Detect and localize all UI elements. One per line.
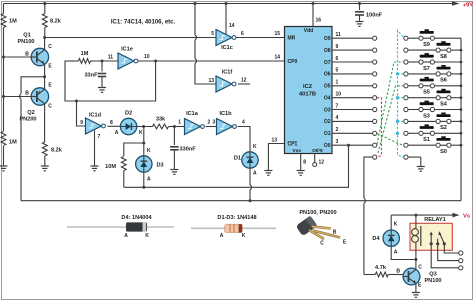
svg-text:Vdd: Vdd	[304, 28, 313, 34]
pin 8 Vss stub	[293, 148, 307, 171]
svg-text:3: 3	[213, 120, 216, 126]
svg-text:PN100: PN100	[17, 39, 34, 45]
relay RELAY1 box	[410, 217, 452, 250]
svg-text:9: 9	[80, 120, 83, 126]
wire 33k to IC1a	[169, 120, 185, 129]
ground 100nF	[356, 22, 364, 27]
svg-text:D4: D4	[372, 236, 380, 242]
switch S0 pushbutton	[404, 136, 463, 155]
svg-text:13: 13	[271, 138, 277, 144]
pin 14 CP0	[274, 55, 297, 65]
wire 10M to bus	[123, 171, 125, 188]
svg-text:O0: O0	[324, 143, 331, 149]
inverter IC1a	[185, 111, 205, 135]
svg-text:S1: S1	[423, 137, 430, 143]
pin 5 label	[211, 31, 214, 37]
svg-text:2: 2	[336, 127, 339, 133]
svg-text:A: A	[220, 233, 224, 239]
svg-text:11: 11	[336, 32, 342, 38]
svg-text:4: 4	[336, 115, 339, 121]
diode D2	[115, 111, 143, 137]
svg-text:1M: 1M	[9, 19, 17, 25]
wire IC1b output to D1	[238, 120, 258, 153]
diode D1	[234, 152, 258, 177]
svg-text:A: A	[253, 171, 257, 177]
svg-text:4: 4	[242, 120, 245, 126]
terminal circle O2	[373, 119, 377, 123]
resistor R 8.2k upper	[42, 2, 61, 38]
terminal circle O1	[373, 131, 377, 135]
relay contact arm 2	[436, 239, 439, 246]
svg-text:IC2: IC2	[303, 84, 312, 90]
svg-text:O9: O9	[324, 36, 331, 42]
diode D3	[136, 156, 164, 183]
wire output O9 pin 11	[324, 32, 373, 42]
transistor Q2 PN200	[19, 83, 52, 123]
pin 9 label	[80, 120, 83, 126]
pin 6 label	[241, 31, 244, 37]
pictorial PN100 PN200 package	[296, 210, 347, 247]
wire D3 anode to bus	[142, 172, 145, 189]
svg-text:10: 10	[336, 92, 342, 98]
svg-text:S8: S8	[440, 54, 447, 60]
svg-text:O7: O7	[324, 60, 331, 66]
capacitor C 100nF	[355, 2, 383, 22]
svg-text:S5: S5	[423, 90, 430, 96]
svg-text:IC1f: IC1f	[222, 70, 233, 76]
wire Q3 collector	[415, 260, 417, 270]
svg-text:Q1: Q1	[23, 33, 30, 39]
svg-text:IC1a: IC1a	[186, 111, 199, 117]
terminal circle O4	[373, 96, 377, 100]
switch S4 pushbutton	[404, 89, 463, 108]
svg-text:9: 9	[336, 44, 339, 50]
svg-text:D1: D1	[234, 156, 241, 162]
pictorial D1-D3 1N4148	[191, 215, 276, 239]
ground 330nF	[170, 170, 178, 175]
ground 33nF	[98, 88, 106, 93]
wire output O3 pin 7	[324, 103, 373, 113]
resistor R 8.2k lower	[42, 142, 62, 166]
svg-text:K: K	[139, 130, 143, 136]
node Vs label	[463, 214, 470, 220]
svg-text:PN100, PN200: PN100, PN200	[299, 210, 336, 216]
svg-text:B: B	[333, 230, 337, 236]
svg-text:S2: S2	[440, 125, 447, 131]
wire O0 branch to timeout bus	[124, 145, 349, 187]
svg-text:O3: O3	[324, 107, 331, 113]
wire Q1 emitter to Q2 emitter	[43, 64, 46, 89]
wire relay terminal 1	[444, 244, 463, 255]
wire touch bus	[21, 200, 461, 202]
svg-text:K: K	[147, 148, 151, 154]
resistor R 4.7k	[364, 265, 404, 277]
svg-text:4017B: 4017B	[299, 92, 316, 98]
svg-text:16: 16	[316, 18, 322, 24]
wire relay terminal 2	[438, 244, 463, 263]
svg-text:S4: S4	[440, 102, 448, 108]
wire Q1 base	[2, 56, 31, 59]
wire output O2 pin 4	[324, 115, 373, 125]
jumper red O4 to relay-drive	[377, 98, 382, 157]
svg-text:11: 11	[108, 55, 114, 61]
pin 13 CP1 grounded	[268, 138, 297, 171]
svg-text:C: C	[48, 103, 52, 109]
svg-text:1M: 1M	[81, 51, 89, 57]
svg-text:RELAY1: RELAY1	[424, 217, 446, 223]
svg-text:C: C	[418, 265, 422, 271]
pin 12 O5-9 stub	[312, 148, 324, 167]
jumper green drive to S5	[378, 86, 403, 153]
relay coil	[412, 215, 421, 259]
jumper green O0 to S7	[377, 62, 403, 144]
svg-text:D2: D2	[125, 111, 132, 117]
wire IC1a out to IC1b	[206, 120, 217, 127]
svg-text:CP0: CP0	[288, 59, 298, 65]
wire output O1 pin 2	[324, 127, 373, 137]
wire Q2 collector	[44, 104, 46, 142]
capacitor C 330nF	[170, 127, 196, 170]
svg-text:B: B	[396, 269, 400, 275]
svg-text:8.2k: 8.2k	[50, 19, 62, 25]
inverter IC1f	[216, 70, 236, 93]
wire Q1 collector	[43, 36, 46, 50]
svg-text:5: 5	[336, 68, 339, 74]
jumper cyan ground chain	[396, 31, 403, 158]
wire bases column	[2, 57, 5, 98]
svg-text:B: B	[25, 91, 29, 97]
inverter IC1e	[118, 47, 138, 70]
svg-text:A: A	[124, 233, 128, 239]
wire node to D3 cathode	[144, 127, 151, 157]
svg-text:7: 7	[336, 103, 339, 109]
svg-text:1: 1	[336, 80, 339, 86]
svg-text:13: 13	[208, 78, 214, 84]
switch S1 pushbutton	[404, 124, 463, 143]
svg-text:Q2: Q2	[27, 110, 34, 116]
svg-text:8: 8	[303, 160, 306, 166]
svg-text:100nF: 100nF	[366, 13, 383, 19]
svg-text:33nF: 33nF	[84, 73, 98, 79]
row ground terminal	[404, 155, 421, 167]
wire Q3 emitter	[415, 283, 417, 292]
resistor R 33k	[153, 117, 169, 129]
terminal circle O0	[373, 143, 377, 147]
wire Q1 collector to IC1c input	[45, 37, 216, 39]
svg-text:S9: S9	[423, 42, 430, 48]
svg-text:12: 12	[319, 160, 325, 166]
ground lower 8.2k	[41, 166, 49, 171]
svg-text:S0: S0	[440, 149, 447, 155]
ground bottom-left 1M	[0, 166, 8, 171]
svg-text:O5-9: O5-9	[312, 148, 323, 154]
pin 12 IC1f output stub	[238, 78, 250, 85]
svg-text:D3: D3	[157, 163, 164, 169]
switch S8 pushbutton	[404, 41, 463, 60]
wire 10M branch	[124, 142, 146, 157]
terminal circle O3	[373, 107, 377, 111]
switch S6 pushbutton	[404, 65, 463, 84]
svg-text:O6: O6	[324, 72, 331, 78]
resistor R 1M top-left	[1, 4, 17, 57]
svg-text:CP1: CP1	[288, 142, 298, 148]
relay contact arm 1	[430, 231, 433, 245]
inverter IC1c	[216, 30, 236, 52]
wire output O4 pin 10	[324, 92, 373, 102]
svg-text:K: K	[394, 222, 398, 228]
inverter IC1d	[86, 113, 106, 135]
wire output O8 pin 9	[324, 44, 373, 54]
terminal circle O9	[373, 36, 377, 40]
pin 8 label	[110, 120, 113, 126]
svg-text:IC1b: IC1b	[219, 111, 232, 117]
terminal circle O7	[373, 60, 377, 64]
wire IC1f input tie to rail	[194, 2, 217, 84]
switch S2 pushbutton	[404, 113, 463, 132]
svg-text:Vss: Vss	[293, 148, 302, 154]
svg-text:1: 1	[178, 120, 181, 126]
svg-text:15: 15	[274, 31, 280, 37]
wire IC1d output	[108, 125, 121, 127]
ground CP1	[264, 171, 272, 176]
transistor Q3 PN100	[396, 265, 441, 289]
wire oscillator feedback loop	[65, 61, 156, 103]
diode D4	[372, 215, 417, 261]
svg-text:IC1c: IC1c	[221, 45, 233, 51]
terminal circle O6	[373, 72, 377, 76]
svg-text:K: K	[242, 233, 246, 239]
wire CP0 net to IC2	[156, 60, 285, 62]
resistor R 1M oscillator	[65, 51, 94, 63]
svg-text:Q3: Q3	[429, 272, 436, 278]
resistor R 10M	[105, 157, 126, 171]
jumper green O1 to S0	[377, 133, 403, 145]
resistor R 1M bottom-left	[1, 97, 17, 167]
svg-text:B: B	[25, 52, 29, 58]
svg-text:C: C	[320, 241, 324, 247]
wire emitters to touch bus	[19, 77, 44, 201]
svg-text:12: 12	[241, 78, 247, 84]
ground switch common	[417, 167, 425, 172]
svg-text:O1: O1	[324, 131, 331, 137]
capacitor C 33nF	[84, 60, 106, 88]
svg-text:5: 5	[211, 31, 214, 37]
relay contact arm 3	[438, 231, 446, 245]
svg-text:PN100: PN100	[424, 278, 441, 284]
switch S3 pushbutton	[404, 101, 463, 120]
svg-text:PN200: PN200	[19, 116, 36, 122]
wire output O5 pin 1	[324, 80, 373, 90]
svg-text:10M: 10M	[105, 164, 116, 170]
svg-text:K: K	[145, 233, 149, 239]
wire IC1e output node	[138, 54, 157, 63]
svg-text:O4: O4	[324, 96, 331, 102]
wire IC1c output to MR	[236, 37, 285, 39]
svg-text:IC1: 74C14, 40106, etc.: IC1: 74C14, 40106, etc.	[111, 20, 176, 26]
wire IC1e input	[94, 55, 119, 62]
wire right switch bus	[460, 38, 462, 201]
wire output O0 pin 3	[324, 139, 373, 149]
pictorial D4 1N4004	[67, 215, 174, 239]
wire IC1d input from oscillator	[77, 101, 86, 126]
pin 16 Vdd stub	[304, 2, 322, 34]
svg-text:6: 6	[241, 31, 244, 37]
pin 15 MR	[274, 31, 295, 41]
svg-text:8: 8	[110, 120, 113, 126]
pin 14 IC1c Vdd stub	[225, 2, 235, 34]
svg-text:D1-D3: 1N4148: D1-D3: 1N4148	[217, 215, 256, 221]
svg-text:2: 2	[208, 120, 211, 126]
ground IC1d pin7	[91, 166, 99, 171]
inverter IC1b	[217, 111, 237, 135]
switch S7 pushbutton	[404, 53, 463, 72]
wire +9V top supply rail	[4, 1, 460, 6]
wire Vs supply	[391, 213, 459, 218]
svg-text:Vs: Vs	[463, 214, 470, 220]
pin 7 IC1d ground stub	[95, 131, 101, 167]
svg-text:4.7k: 4.7k	[375, 265, 387, 271]
terminal circle O5	[373, 84, 377, 88]
svg-text:33k: 33k	[156, 117, 166, 123]
svg-text:7: 7	[98, 134, 101, 140]
svg-text:6: 6	[336, 56, 339, 62]
svg-text:8.2k: 8.2k	[51, 148, 63, 154]
svg-text:14: 14	[274, 55, 280, 61]
transistor Q1 PN100	[17, 33, 52, 70]
wire D1 anode to touch bus	[249, 168, 252, 202]
svg-text:C: C	[48, 44, 52, 50]
svg-text:10: 10	[144, 54, 150, 60]
wire relay terminal 3	[431, 244, 463, 270]
svg-text:3: 3	[336, 139, 339, 145]
svg-text:S7: S7	[423, 66, 430, 72]
ground Vss	[297, 171, 305, 176]
svg-text:IC1e: IC1e	[121, 47, 133, 53]
terminal circle O8	[373, 48, 377, 52]
svg-text:O8: O8	[324, 48, 331, 54]
svg-text:MR: MR	[288, 35, 296, 41]
label IC1 type	[111, 20, 176, 26]
svg-text:A: A	[115, 130, 119, 136]
wire output O7 pin 6	[324, 56, 373, 66]
svg-text:14: 14	[229, 23, 235, 29]
svg-text:S3: S3	[423, 113, 430, 119]
switch S9 pushbutton	[404, 29, 461, 48]
svg-text:A: A	[147, 177, 151, 183]
svg-text:A: A	[394, 250, 398, 256]
IC2 4017B body	[285, 27, 333, 154]
row bottom relay-drive terminal	[364, 155, 377, 275]
node +9V label	[462, 1, 473, 9]
wire Q2 base	[4, 96, 32, 98]
switch S5 pushbutton	[404, 77, 463, 96]
svg-text:O5: O5	[324, 84, 331, 90]
svg-text:S6: S6	[440, 78, 447, 84]
wire output O6 pin 5	[324, 68, 373, 78]
svg-text:D4: 1N4004: D4: 1N4004	[121, 215, 152, 221]
pin 13 label	[208, 78, 214, 84]
svg-text:K: K	[253, 144, 257, 150]
svg-text:1M: 1M	[9, 140, 17, 146]
svg-text:IC1d: IC1d	[89, 113, 102, 119]
svg-text:330nF: 330nF	[180, 147, 197, 153]
ground Q3 emitter	[412, 293, 420, 298]
svg-text:O2: O2	[324, 119, 331, 125]
wire D2 cathode node	[137, 125, 153, 128]
